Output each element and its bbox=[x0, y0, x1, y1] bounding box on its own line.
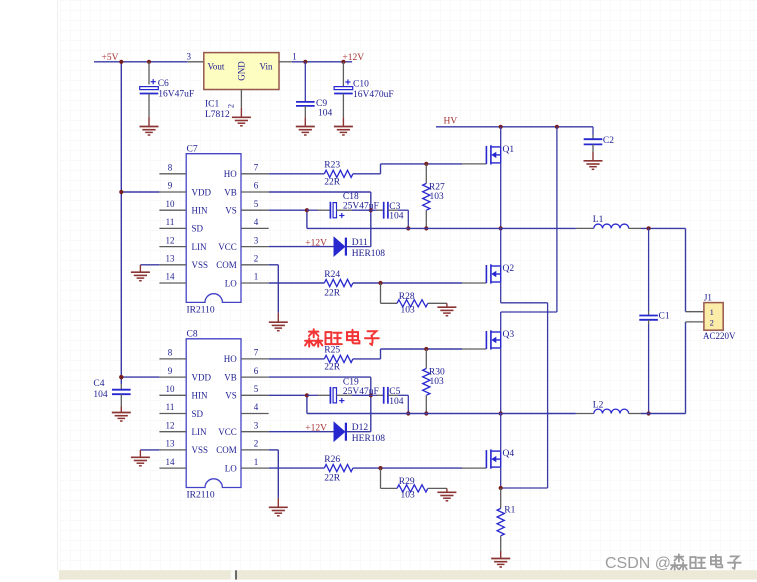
svg-text:8: 8 bbox=[168, 163, 173, 173]
svg-text:9: 9 bbox=[168, 366, 173, 376]
svg-text:AC220V: AC220V bbox=[703, 331, 736, 341]
svg-text:6: 6 bbox=[254, 366, 259, 376]
svg-text:R23: R23 bbox=[324, 161, 340, 171]
capacitor C3 104 bbox=[371, 209, 377, 211]
svg-text:VB: VB bbox=[224, 372, 237, 382]
svg-text:1: 1 bbox=[292, 51, 297, 61]
pin 6 of C8 bbox=[241, 376, 269, 378]
resistor R27 103 bbox=[425, 164, 427, 184]
ground IC1 pin2 bbox=[240, 108, 242, 118]
pin 5 of C8 bbox=[241, 394, 269, 396]
svg-text:VDD: VDD bbox=[192, 187, 212, 197]
pin 7 of C8 bbox=[241, 358, 269, 360]
svg-text:2: 2 bbox=[710, 317, 714, 327]
wire VSS to ground bbox=[140, 264, 159, 266]
capacitor C19 25V47uF bbox=[307, 394, 318, 396]
svg-text:103: 103 bbox=[401, 306, 416, 316]
svg-text:LIN: LIN bbox=[192, 427, 207, 437]
svg-text:Vin: Vin bbox=[260, 62, 273, 72]
svg-text:2: 2 bbox=[254, 439, 259, 449]
junction +5V/vertical bbox=[119, 60, 123, 64]
wire R24 to gate of Q2 bbox=[353, 282, 381, 284]
pin 9 of C7 bbox=[159, 191, 186, 193]
pin 7 of C7 bbox=[241, 173, 269, 175]
junction HV / Q3 branch bbox=[555, 125, 559, 129]
wire HO to R23 bbox=[269, 173, 325, 175]
svg-text:10: 10 bbox=[166, 384, 176, 394]
junction HV / Q1 drain bbox=[499, 125, 503, 129]
svg-text:13: 13 bbox=[166, 439, 176, 449]
svg-text:C7: C7 bbox=[187, 145, 198, 155]
bottom scrollbar strip bbox=[59, 570, 757, 579]
svg-text:HO: HO bbox=[224, 354, 237, 364]
svg-text:HO: HO bbox=[224, 169, 237, 179]
svg-text:C2: C2 bbox=[603, 136, 614, 146]
ground C2 bbox=[592, 152, 594, 161]
wire phase A rail bbox=[307, 227, 576, 229]
wire R23 to gate of Q1 bbox=[353, 173, 381, 175]
resistor R25 22R bbox=[324, 355, 353, 362]
svg-text:VCC: VCC bbox=[218, 427, 237, 437]
svg-text:13: 13 bbox=[166, 254, 176, 264]
svg-text:104: 104 bbox=[389, 212, 404, 222]
wire VS net bbox=[269, 394, 307, 396]
junction VS bbox=[305, 208, 309, 212]
junction +12V/C10 bbox=[341, 60, 345, 64]
svg-text:104: 104 bbox=[389, 397, 404, 407]
svg-text:C4: C4 bbox=[93, 379, 104, 389]
svg-text:10: 10 bbox=[166, 199, 176, 209]
junction VDD2 / C4 bbox=[119, 375, 123, 379]
svg-text:LIN: LIN bbox=[192, 242, 207, 252]
pin 3 of C7 bbox=[241, 246, 269, 248]
wire VB net bbox=[269, 191, 371, 193]
pin 3 of C8 bbox=[241, 431, 269, 433]
junction C5 / VS rail bbox=[406, 411, 410, 415]
capacitor C4 104 bbox=[120, 384, 122, 390]
svg-text:Q2: Q2 bbox=[503, 264, 515, 274]
svg-text:R26: R26 bbox=[324, 455, 340, 465]
pin 1 of C8 bbox=[241, 467, 269, 469]
svg-text:11: 11 bbox=[166, 402, 175, 412]
svg-text:4: 4 bbox=[254, 402, 259, 412]
svg-text:103: 103 bbox=[401, 491, 416, 501]
pin 8 of C7 bbox=[159, 173, 186, 175]
capacitor C1 bbox=[648, 228, 650, 311]
svg-text:C10: C10 bbox=[353, 80, 369, 90]
diode D11 HER108 bbox=[334, 237, 345, 256]
svg-text:9: 9 bbox=[168, 181, 173, 191]
svg-text:VDD: VDD bbox=[192, 372, 212, 382]
wire R25 to gate of Q3 bbox=[353, 358, 381, 360]
junction R30 / VS rail bbox=[424, 411, 428, 415]
op-amp driver C7 IR2110 bbox=[186, 154, 241, 303]
svg-text:2: 2 bbox=[254, 254, 259, 264]
wire L1 to output bbox=[641, 227, 686, 229]
svg-text:VS: VS bbox=[225, 391, 237, 401]
svg-text:8: 8 bbox=[168, 348, 173, 358]
wire Q4 source bbox=[500, 467, 502, 488]
wire VCC to diode D11 bbox=[269, 246, 334, 248]
svg-text:HIN: HIN bbox=[192, 391, 208, 401]
svg-text:Q1: Q1 bbox=[503, 145, 515, 155]
wire Q1 source to phase A rail bbox=[500, 163, 502, 229]
pin 4 of C7 bbox=[241, 227, 269, 229]
pin 14 of C8 bbox=[159, 467, 186, 469]
svg-text:1: 1 bbox=[254, 272, 259, 282]
resistor R1 bbox=[500, 488, 502, 508]
junction gate Q3 / R30 bbox=[424, 347, 428, 351]
ground R28 bbox=[446, 303, 448, 307]
svg-text:16V47uF: 16V47uF bbox=[158, 89, 194, 99]
svg-text:C19: C19 bbox=[343, 377, 359, 387]
capacitor C6 16V47uF bbox=[148, 62, 150, 85]
svg-text:Q3: Q3 bbox=[503, 330, 515, 340]
svg-text:C3: C3 bbox=[389, 202, 400, 212]
svg-text:103: 103 bbox=[430, 377, 445, 387]
svg-text:IR2110: IR2110 bbox=[187, 491, 215, 501]
svg-text:R1: R1 bbox=[504, 506, 515, 516]
svg-text:12: 12 bbox=[166, 235, 175, 245]
svg-text:HER108: HER108 bbox=[352, 249, 386, 259]
wire VDD row to left rail bbox=[121, 376, 159, 378]
svg-text:103: 103 bbox=[430, 192, 445, 202]
svg-text:D11: D11 bbox=[352, 238, 368, 248]
junction gate Q1 / R27 bbox=[424, 162, 428, 166]
transistor Q1 bbox=[500, 127, 502, 147]
svg-text:L1: L1 bbox=[593, 215, 604, 225]
junction C3 / VS rail bbox=[406, 226, 410, 230]
svg-text:12: 12 bbox=[166, 420, 175, 430]
wire HO to R25 bbox=[269, 358, 325, 360]
wire +5V rail bbox=[94, 61, 188, 63]
svg-text:IC1: IC1 bbox=[205, 100, 220, 110]
svg-text:3: 3 bbox=[187, 51, 192, 61]
inductor L2 bbox=[576, 413, 594, 415]
svg-text:C8: C8 bbox=[187, 330, 198, 340]
svg-text:22R: 22R bbox=[324, 177, 341, 187]
junction +5V/C6 bbox=[147, 60, 151, 64]
junction VS bbox=[305, 393, 309, 397]
connector J1 AC220V bbox=[686, 311, 704, 313]
ground C4 bbox=[120, 407, 122, 413]
svg-text:2: 2 bbox=[226, 104, 236, 108]
svg-text:C18: C18 bbox=[343, 192, 359, 202]
svg-text:J1: J1 bbox=[704, 293, 712, 303]
svg-text:HIN: HIN bbox=[192, 206, 208, 216]
wire Q2 source link bbox=[500, 282, 502, 303]
wire COM bbox=[269, 264, 279, 266]
pin 12 of C8 bbox=[159, 431, 186, 433]
junction gate Q2 / R28 bbox=[378, 281, 382, 285]
svg-text:VS: VS bbox=[225, 206, 237, 216]
svg-text:GND: GND bbox=[236, 61, 246, 81]
svg-text:D12: D12 bbox=[352, 423, 369, 433]
wire R26 to gate of Q4 bbox=[353, 467, 381, 469]
pin 5 of C7 bbox=[241, 209, 269, 211]
svg-text:R28: R28 bbox=[399, 292, 415, 302]
pin 10 of C7 bbox=[159, 209, 186, 211]
svg-text:7: 7 bbox=[254, 163, 259, 173]
svg-text:3: 3 bbox=[254, 420, 259, 430]
svg-text:1: 1 bbox=[254, 457, 259, 467]
wire COM bbox=[269, 449, 279, 451]
wire VB net bbox=[269, 376, 371, 378]
svg-text:7: 7 bbox=[254, 348, 259, 358]
wire LO to R24 bbox=[269, 282, 325, 284]
svg-text:4: 4 bbox=[254, 217, 259, 227]
svg-text:16V470uF: 16V470uF bbox=[353, 90, 394, 100]
svg-text:IR2110: IR2110 bbox=[187, 306, 215, 316]
pin 6 of C7 bbox=[241, 191, 269, 193]
pin 10 of C8 bbox=[159, 394, 186, 396]
pin 11 of C7 bbox=[159, 227, 186, 229]
resistor R24 22R bbox=[324, 279, 353, 286]
svg-text:+12V: +12V bbox=[342, 53, 364, 63]
svg-text:3: 3 bbox=[254, 235, 259, 245]
ground COM C7 bbox=[277, 313, 279, 322]
capacitor C9 104 bbox=[304, 62, 306, 102]
svg-text:Vout: Vout bbox=[208, 62, 225, 72]
resistor R26 22R bbox=[324, 465, 353, 472]
svg-text:Q4: Q4 bbox=[503, 449, 515, 459]
svg-text:22R: 22R bbox=[324, 473, 341, 483]
inductor L1 bbox=[576, 227, 594, 229]
svg-text:5: 5 bbox=[254, 199, 259, 209]
svg-text:22R: 22R bbox=[324, 362, 341, 372]
transistor Q4 bbox=[500, 414, 502, 452]
wire L2 to output bbox=[641, 413, 686, 415]
ground C6 bbox=[148, 117, 150, 127]
svg-text:6: 6 bbox=[254, 181, 259, 191]
svg-text:LO: LO bbox=[225, 278, 237, 288]
svg-text:LO: LO bbox=[225, 463, 237, 473]
svg-text:VSS: VSS bbox=[192, 445, 209, 455]
svg-text:L7812: L7812 bbox=[205, 110, 230, 120]
regulator IC1 L7812 bbox=[204, 53, 279, 90]
capacitor C10 16V470uF bbox=[342, 62, 344, 87]
svg-text:11: 11 bbox=[166, 217, 175, 227]
pin 4 of C8 bbox=[241, 413, 269, 415]
op-amp driver C8 IR2110 bbox=[186, 339, 241, 488]
ground R1 bbox=[500, 551, 502, 559]
junction VDD bbox=[119, 375, 123, 379]
wire LO to R26 bbox=[269, 467, 325, 469]
svg-text:VSS: VSS bbox=[192, 260, 209, 270]
svg-text:C1: C1 bbox=[659, 312, 670, 322]
pin 2 of C8 bbox=[241, 449, 269, 451]
wire VSS to ground bbox=[140, 449, 159, 451]
capacitor C5 104 bbox=[371, 394, 377, 396]
pin 8 of C8 bbox=[159, 358, 186, 360]
svg-text:COM: COM bbox=[216, 445, 237, 455]
svg-text:104: 104 bbox=[318, 109, 333, 119]
svg-text:1: 1 bbox=[710, 307, 714, 317]
pin 12 of C7 bbox=[159, 246, 186, 248]
background grid bbox=[57, 0, 59, 570]
ground COM C8 bbox=[277, 498, 279, 507]
pin 13 of C7 bbox=[159, 264, 186, 266]
svg-text:22R: 22R bbox=[324, 288, 341, 298]
watermark red text bbox=[305, 329, 322, 346]
svg-text:14: 14 bbox=[166, 272, 176, 282]
svg-text:HV: HV bbox=[444, 116, 458, 126]
wire phase B rail bbox=[307, 413, 576, 415]
junction C1 / phase B rail bbox=[647, 411, 651, 415]
svg-text:C5: C5 bbox=[389, 387, 400, 397]
wire HV to Q3 drain bbox=[556, 127, 558, 312]
ground C9 bbox=[304, 117, 306, 126]
wire VCC to diode D12 bbox=[269, 431, 334, 433]
svg-text:HER108: HER108 bbox=[352, 434, 386, 444]
pin 13 of C8 bbox=[159, 449, 186, 451]
pin 14 of C7 bbox=[159, 282, 186, 284]
junction Q4 source / shunt bbox=[499, 486, 503, 490]
svg-text:SD: SD bbox=[192, 409, 204, 419]
svg-text:VB: VB bbox=[224, 187, 237, 197]
pin 11 of C8 bbox=[159, 413, 186, 415]
wire Q3 source to phase B rail bbox=[500, 348, 502, 414]
ground VSS C7 bbox=[139, 265, 141, 272]
resistor R29 103 bbox=[380, 468, 382, 488]
wire VDD row to left rail bbox=[121, 191, 159, 193]
pin 2 of C7 bbox=[241, 264, 269, 266]
junction VDD bbox=[119, 190, 123, 194]
junction +12V/C9 bbox=[303, 60, 307, 64]
junction VB / bootstrap caps bbox=[369, 208, 373, 212]
svg-text:SD: SD bbox=[192, 224, 204, 234]
svg-text:VCC: VCC bbox=[218, 242, 237, 252]
transistor Q3 bbox=[485, 331, 487, 349]
transistor Q2 bbox=[500, 228, 502, 266]
svg-text:R24: R24 bbox=[324, 270, 340, 280]
svg-text:R29: R29 bbox=[399, 477, 415, 487]
ground C10 bbox=[342, 117, 344, 126]
junction L1 / C1 bbox=[647, 226, 651, 230]
wire +5V left vertical distribution bbox=[120, 62, 122, 384]
junction phase A / Q1-Q2 bbox=[499, 226, 503, 230]
wire HV rail bbox=[436, 126, 593, 128]
diode D12 HER108 bbox=[334, 422, 345, 441]
svg-text:CSDN @: CSDN @ bbox=[605, 555, 671, 572]
svg-text:L2: L2 bbox=[593, 401, 604, 411]
junction gate Q4 / R29 bbox=[378, 466, 382, 470]
svg-text:C6: C6 bbox=[158, 79, 169, 89]
capacitor C2 bbox=[592, 127, 594, 135]
junction R27 / VS rail bbox=[424, 226, 428, 230]
wire VS net bbox=[269, 209, 307, 211]
ground R29 bbox=[446, 488, 448, 492]
resistor R30 103 bbox=[425, 349, 427, 369]
junction VB / bootstrap caps bbox=[369, 393, 373, 397]
resistor R28 103 bbox=[380, 283, 382, 303]
capacitor C18 25V47uF bbox=[307, 209, 318, 211]
pin 1 of C7 bbox=[241, 282, 269, 284]
svg-text:104: 104 bbox=[93, 390, 108, 400]
ground VSS C8 bbox=[139, 450, 141, 457]
pin 9 of C8 bbox=[159, 376, 186, 378]
svg-text:COM: COM bbox=[216, 260, 237, 270]
svg-text:14: 14 bbox=[166, 457, 176, 467]
junction phase B / Q3-Q4 bbox=[499, 411, 503, 415]
svg-text:R25: R25 bbox=[324, 346, 340, 356]
svg-text:5: 5 bbox=[254, 384, 259, 394]
resistor R23 22R bbox=[324, 170, 353, 177]
